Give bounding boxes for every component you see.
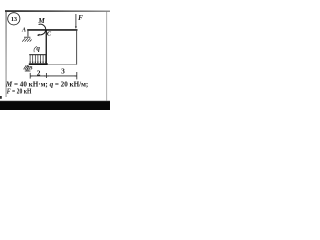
svg-text:F: F	[78, 14, 83, 22]
svg-text:3: 3	[61, 67, 65, 76]
svg-text:q: q	[36, 45, 40, 53]
svg-text:F = 20 кН: F = 20 кН	[7, 87, 32, 95]
svg-text:2: 2	[37, 68, 41, 77]
svg-text:A: A	[21, 27, 26, 33]
svg-text:M: M	[37, 16, 45, 25]
svg-text:13: 13	[11, 16, 17, 23]
svg-text:B: B	[28, 66, 33, 72]
